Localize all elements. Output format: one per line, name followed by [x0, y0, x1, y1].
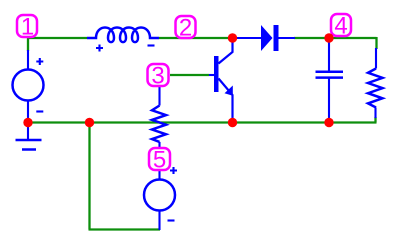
node 2	[176, 15, 196, 42]
wire bottom horizontal to V5	[89, 228, 161, 230]
wire diode cathode to node4 to top-right corner	[294, 37, 377, 39]
svg-text:1: 1	[21, 14, 34, 41]
resistor R-base	[152, 87, 166, 147]
junction dot bus left drop	[85, 118, 94, 127]
wire bottom bus	[28, 121, 377, 123]
svg-text:2: 2	[179, 15, 192, 42]
wire inductor to node2 to transistor collector node	[159, 37, 233, 39]
capacitor C1	[316, 38, 344, 123]
node 5	[149, 147, 170, 174]
node 1	[17, 14, 37, 41]
wire left drop from bus junction	[88, 123, 90, 230]
voltage source V1	[13, 50, 44, 122]
svg-text:3: 3	[151, 63, 164, 90]
voltage source V5	[144, 167, 177, 230]
transistor Q1	[209, 38, 233, 123]
junction dot capacitor on bus	[324, 118, 333, 127]
wire node1 down to V1	[27, 37, 29, 51]
svg-text:4: 4	[334, 13, 347, 40]
svg-text:5: 5	[153, 147, 166, 174]
wire node3 to transistor base	[170, 74, 209, 76]
wire load resistor bottom to bus	[374, 117, 376, 123]
node 4	[331, 13, 351, 40]
diode D1	[235, 25, 295, 51]
node 3	[148, 63, 169, 90]
wire top-left horizontal node1 to inductor	[27, 37, 87, 39]
junction dot V1 minus / ground	[23, 118, 32, 127]
inductor L1	[87, 28, 159, 52]
junction dot node2/collector	[228, 33, 237, 42]
junction dot emitter on bus	[228, 118, 237, 127]
resistor R-load	[368, 48, 383, 118]
ground	[16, 122, 42, 150]
wire top-right corner down to load resistor	[375, 37, 377, 49]
junction dot node4 top	[324, 33, 333, 42]
